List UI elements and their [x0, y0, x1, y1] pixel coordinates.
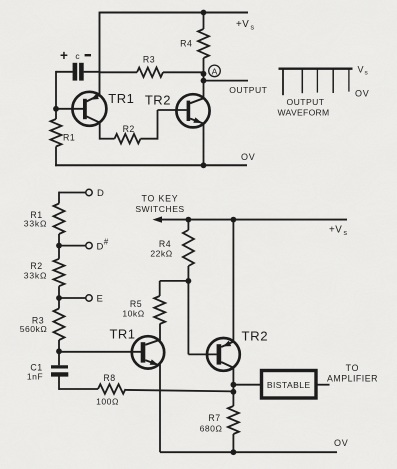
resistor R1 (bottom) — [54, 204, 65, 246]
svg-text:TR1: TR1 — [108, 91, 134, 106]
resistor R4 (bottom) — [183, 220, 194, 281]
resistor R2 (bottom) — [54, 246, 65, 298]
svg-text:TR2: TR2 — [241, 329, 268, 344]
wire TR2 emitter column — [232, 220, 234, 342]
svg-text:33kΩ: 33kΩ — [24, 219, 47, 229]
wire 0V bottom rail (top circuit) — [55, 164, 247, 166]
svg-text:R4: R4 — [180, 38, 192, 48]
label 0V (waveform) — [355, 89, 370, 99]
label R3 560k (bottom) — [20, 315, 48, 334]
svg-text:R5: R5 — [130, 299, 142, 309]
junction top rail / R4 — [201, 10, 207, 16]
wire TR2 emitter to 0V — [203, 123, 205, 165]
label OUTPUT WAVEFORM — [277, 97, 329, 118]
label +Vs (bottom circuit) — [329, 225, 348, 238]
arrow to key switches — [153, 216, 163, 222]
svg-text:D: D — [97, 241, 104, 252]
label R3 (top) — [143, 54, 155, 64]
label TR2 (bottom) — [241, 329, 268, 344]
wire TR2 collector down — [232, 367, 234, 406]
svg-text:E: E — [97, 294, 103, 305]
junction rail/R4 (bottom) — [186, 217, 192, 223]
svg-text:R4: R4 — [159, 239, 171, 249]
label Vs (waveform) — [358, 64, 369, 76]
wire 0V rail (bottom circuit) — [160, 451, 337, 453]
junction D# node — [56, 243, 62, 249]
resistor R3 (bottom) — [54, 298, 65, 351]
wire +Vs rail (bottom circuit) — [156, 219, 347, 221]
svg-text:TO: TO — [346, 363, 360, 373]
svg-text:22kΩ: 22kΩ — [150, 249, 172, 259]
label C1 1nF — [27, 362, 43, 381]
node TR1 base junction — [53, 106, 59, 112]
junction TR1 base node — [56, 348, 62, 354]
wire TR1 collector up — [159, 324, 161, 340]
resistor R7 — [228, 406, 239, 452]
svg-text:OV: OV — [355, 89, 370, 99]
wire D corner — [58, 192, 60, 204]
svg-text:R7: R7 — [208, 413, 220, 423]
label 0V (bottom circuit) — [334, 438, 349, 448]
label R1 (top) — [63, 133, 75, 143]
label R2 33k (bottom) — [24, 261, 47, 281]
label TO AMPLIFIER — [327, 363, 378, 384]
svg-text:R2: R2 — [123, 124, 135, 134]
wire OUTPUT — [204, 80, 249, 82]
wire TR2 collector to node A — [203, 74, 205, 99]
transistor TR1 (top) — [72, 92, 106, 126]
resistor R4 (top) — [198, 13, 209, 75]
label capacitor polarity + c - — [60, 48, 91, 63]
terminal D — [59, 188, 104, 199]
svg-text:TR2: TR2 — [145, 92, 171, 107]
label 0V (top circuit) — [241, 152, 256, 162]
svg-text:+V: +V — [236, 19, 249, 30]
svg-text:33kΩ: 33kΩ — [24, 271, 47, 281]
resistor R5 — [154, 281, 188, 324]
junction R8 node — [231, 389, 237, 395]
junction output node — [201, 78, 207, 84]
svg-text:+: + — [60, 48, 68, 63]
svg-text:OUTPUT: OUTPUT — [286, 97, 324, 107]
svg-text:R2: R2 — [30, 261, 42, 271]
transistor TR1 (bottom) — [132, 336, 164, 368]
resistor R8 — [59, 384, 233, 394]
junction R3/R4 node — [201, 71, 207, 77]
svg-text:OV: OV — [334, 438, 349, 448]
label R4 (top) — [180, 38, 192, 48]
label OUTPUT — [229, 85, 267, 95]
svg-text:OUTPUT: OUTPUT — [229, 85, 267, 95]
label TR2 (top) — [145, 92, 171, 107]
label R1 33k (bottom) — [24, 210, 47, 229]
resistor R1 (top) — [51, 109, 62, 166]
wire +Vs top rail — [100, 12, 249, 14]
capacitor C1 — [51, 350, 68, 390]
label R7 680 — [200, 413, 223, 434]
wire TR1 base — [56, 108, 83, 110]
wire cap right lead — [84, 71, 101, 73]
junction R4/R5/TR2-base node — [186, 278, 192, 284]
waveform pulse ticks — [283, 69, 349, 95]
svg-text:+V: +V — [329, 225, 342, 236]
wire TR1 emitter down — [159, 364, 161, 452]
svg-text:TO KEY: TO KEY — [142, 194, 179, 204]
wire bistable output — [316, 384, 330, 386]
svg-text:560kΩ: 560kΩ — [20, 324, 48, 334]
svg-text:SWITCHES: SWITCHES — [135, 204, 184, 214]
label R4 22k — [150, 239, 172, 259]
svg-text:R3: R3 — [143, 54, 155, 64]
svg-text:A: A — [212, 66, 218, 76]
transistor TR2 (bottom) — [207, 338, 240, 371]
terminal E — [59, 294, 103, 305]
resistor R2 (top) — [100, 134, 158, 144]
waveform Vs level line — [279, 68, 353, 70]
wire left column to base node — [55, 71, 57, 109]
label R2 (top) — [123, 124, 135, 134]
svg-text:10kΩ: 10kΩ — [122, 309, 144, 319]
label R5 10k — [122, 299, 144, 319]
junction TR2 emitter / 0V rail — [201, 162, 207, 168]
svg-text:WAVEFORM: WAVEFORM — [277, 107, 329, 117]
label +Vs (top circuit) — [236, 19, 255, 32]
label TO KEY SWITCHES — [135, 194, 184, 215]
junction E node — [56, 295, 62, 301]
svg-text:OV: OV — [241, 152, 256, 162]
wire TR1 base (bottom) — [59, 351, 141, 353]
label R8 100 — [96, 373, 119, 406]
svg-text:100Ω: 100Ω — [96, 396, 119, 406]
svg-text:TR1: TR1 — [109, 327, 135, 342]
terminal D# — [59, 238, 109, 253]
wire to bistable — [233, 384, 261, 386]
svg-text:s: s — [251, 25, 255, 32]
svg-text:D: D — [97, 188, 104, 199]
label TR1 (bottom) — [109, 327, 135, 342]
transistor TR2 (top) — [176, 94, 209, 127]
wire TR2 base path — [188, 281, 216, 355]
junction R7/0V rail — [231, 449, 237, 455]
svg-text:s: s — [344, 230, 348, 237]
capacitor C plates — [75, 63, 82, 81]
svg-text:R1: R1 — [63, 133, 75, 143]
wire cap left lead — [56, 71, 73, 73]
wire TR1 collector drop — [99, 122, 101, 140]
label TR1 (top) — [108, 91, 134, 106]
block BISTABLE — [262, 371, 317, 399]
junction bistable node — [231, 382, 237, 388]
junction rail/TR2 emitter — [231, 217, 237, 223]
resistor R3 (top) — [100, 68, 205, 78]
svg-text:BISTABLE: BISTABLE — [267, 380, 311, 390]
node A symbol — [209, 65, 221, 77]
wire R2 to TR2 base — [158, 110, 187, 140]
svg-text:R8: R8 — [103, 373, 115, 383]
wire left vertical (rail to TR1 emitter) — [99, 12, 101, 96]
svg-text:1nF: 1nF — [27, 372, 43, 382]
svg-text:AMPLIFIER: AMPLIFIER — [327, 374, 378, 384]
svg-text:V: V — [358, 64, 364, 74]
svg-text:#: # — [104, 238, 109, 247]
svg-text:680Ω: 680Ω — [200, 424, 223, 434]
